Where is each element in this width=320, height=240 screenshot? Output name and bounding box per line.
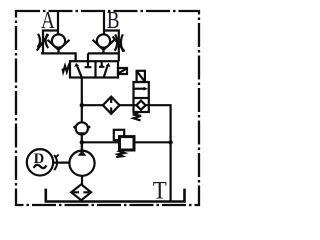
wire A to valve bbox=[74, 53, 76, 61]
check valve ball V2 bbox=[97, 34, 110, 47]
wire filter line bbox=[83, 104, 134, 106]
flow arrow UV1 bbox=[134, 88, 146, 90]
blocked port T2 in DV1 bbox=[99, 61, 104, 67]
wire pump suction bbox=[81, 176, 83, 185]
wire pump outlet bbox=[81, 142, 83, 151]
throttle arcs V2 bbox=[115, 34, 124, 51]
throttle arcs V1 bbox=[38, 34, 49, 48]
spring UV1 bbox=[133, 113, 141, 121]
filter F1 (pressure line) bbox=[103, 97, 120, 114]
suction filter F2 bbox=[71, 184, 91, 200]
wire relief line bbox=[82, 141, 171, 143]
wire through UV1 bbox=[134, 104, 149, 106]
solenoid UV1 bbox=[137, 71, 145, 82]
throttle arrow V1 bbox=[37, 34, 49, 50]
wire UV1 to right line bbox=[149, 105, 171, 201]
motor M1 bbox=[27, 149, 53, 175]
spring RV1 bbox=[116, 150, 126, 157]
wire A port bbox=[57, 10, 59, 35]
junction P-relief bbox=[80, 140, 84, 144]
spring DV1 bbox=[63, 66, 70, 72]
check seat diamond UV1 bbox=[136, 101, 145, 110]
check valve seat V2 bbox=[93, 40, 115, 54]
check valve seat C1 bbox=[74, 126, 90, 135]
shaft coupling bbox=[53, 162, 69, 164]
relief valve RV1 pilot square bbox=[114, 130, 124, 140]
solenoid DV1 bbox=[118, 68, 127, 74]
pump outlet triangle bbox=[78, 150, 87, 155]
wire P line valve to pump bbox=[81, 78, 83, 151]
relief valve RV1 main square bbox=[120, 137, 135, 150]
flow arrow left square DV1 bbox=[77, 66, 82, 77]
blocked port T1 in DV1 bbox=[85, 53, 92, 67]
junction right line bbox=[168, 140, 172, 144]
check valve ball C1 (pump line) bbox=[76, 122, 88, 134]
throttle-check valve V1 (port A) frame bbox=[41, 31, 76, 62]
pump P1 bbox=[69, 151, 94, 176]
tank reservoir bbox=[46, 189, 185, 202]
enclosure envelope (dash-dot border) bbox=[16, 11, 199, 205]
flow arrow right square DV1 bbox=[104, 66, 108, 77]
check valve seat V1 bbox=[48, 40, 70, 54]
throttle-check valve V2 (port B) frame bbox=[88, 31, 119, 62]
check valve ball V1 bbox=[52, 34, 65, 47]
unloading valve UV1 body bbox=[134, 82, 149, 112]
directional valve DV1 body bbox=[70, 61, 118, 77]
svg-text:T: T bbox=[153, 177, 167, 204]
wire B port bbox=[103, 10, 105, 35]
directional valve DV1 divider bbox=[94, 61, 96, 77]
throttle arrow V2 bbox=[113, 36, 125, 51]
junction P-filter bbox=[80, 103, 84, 107]
